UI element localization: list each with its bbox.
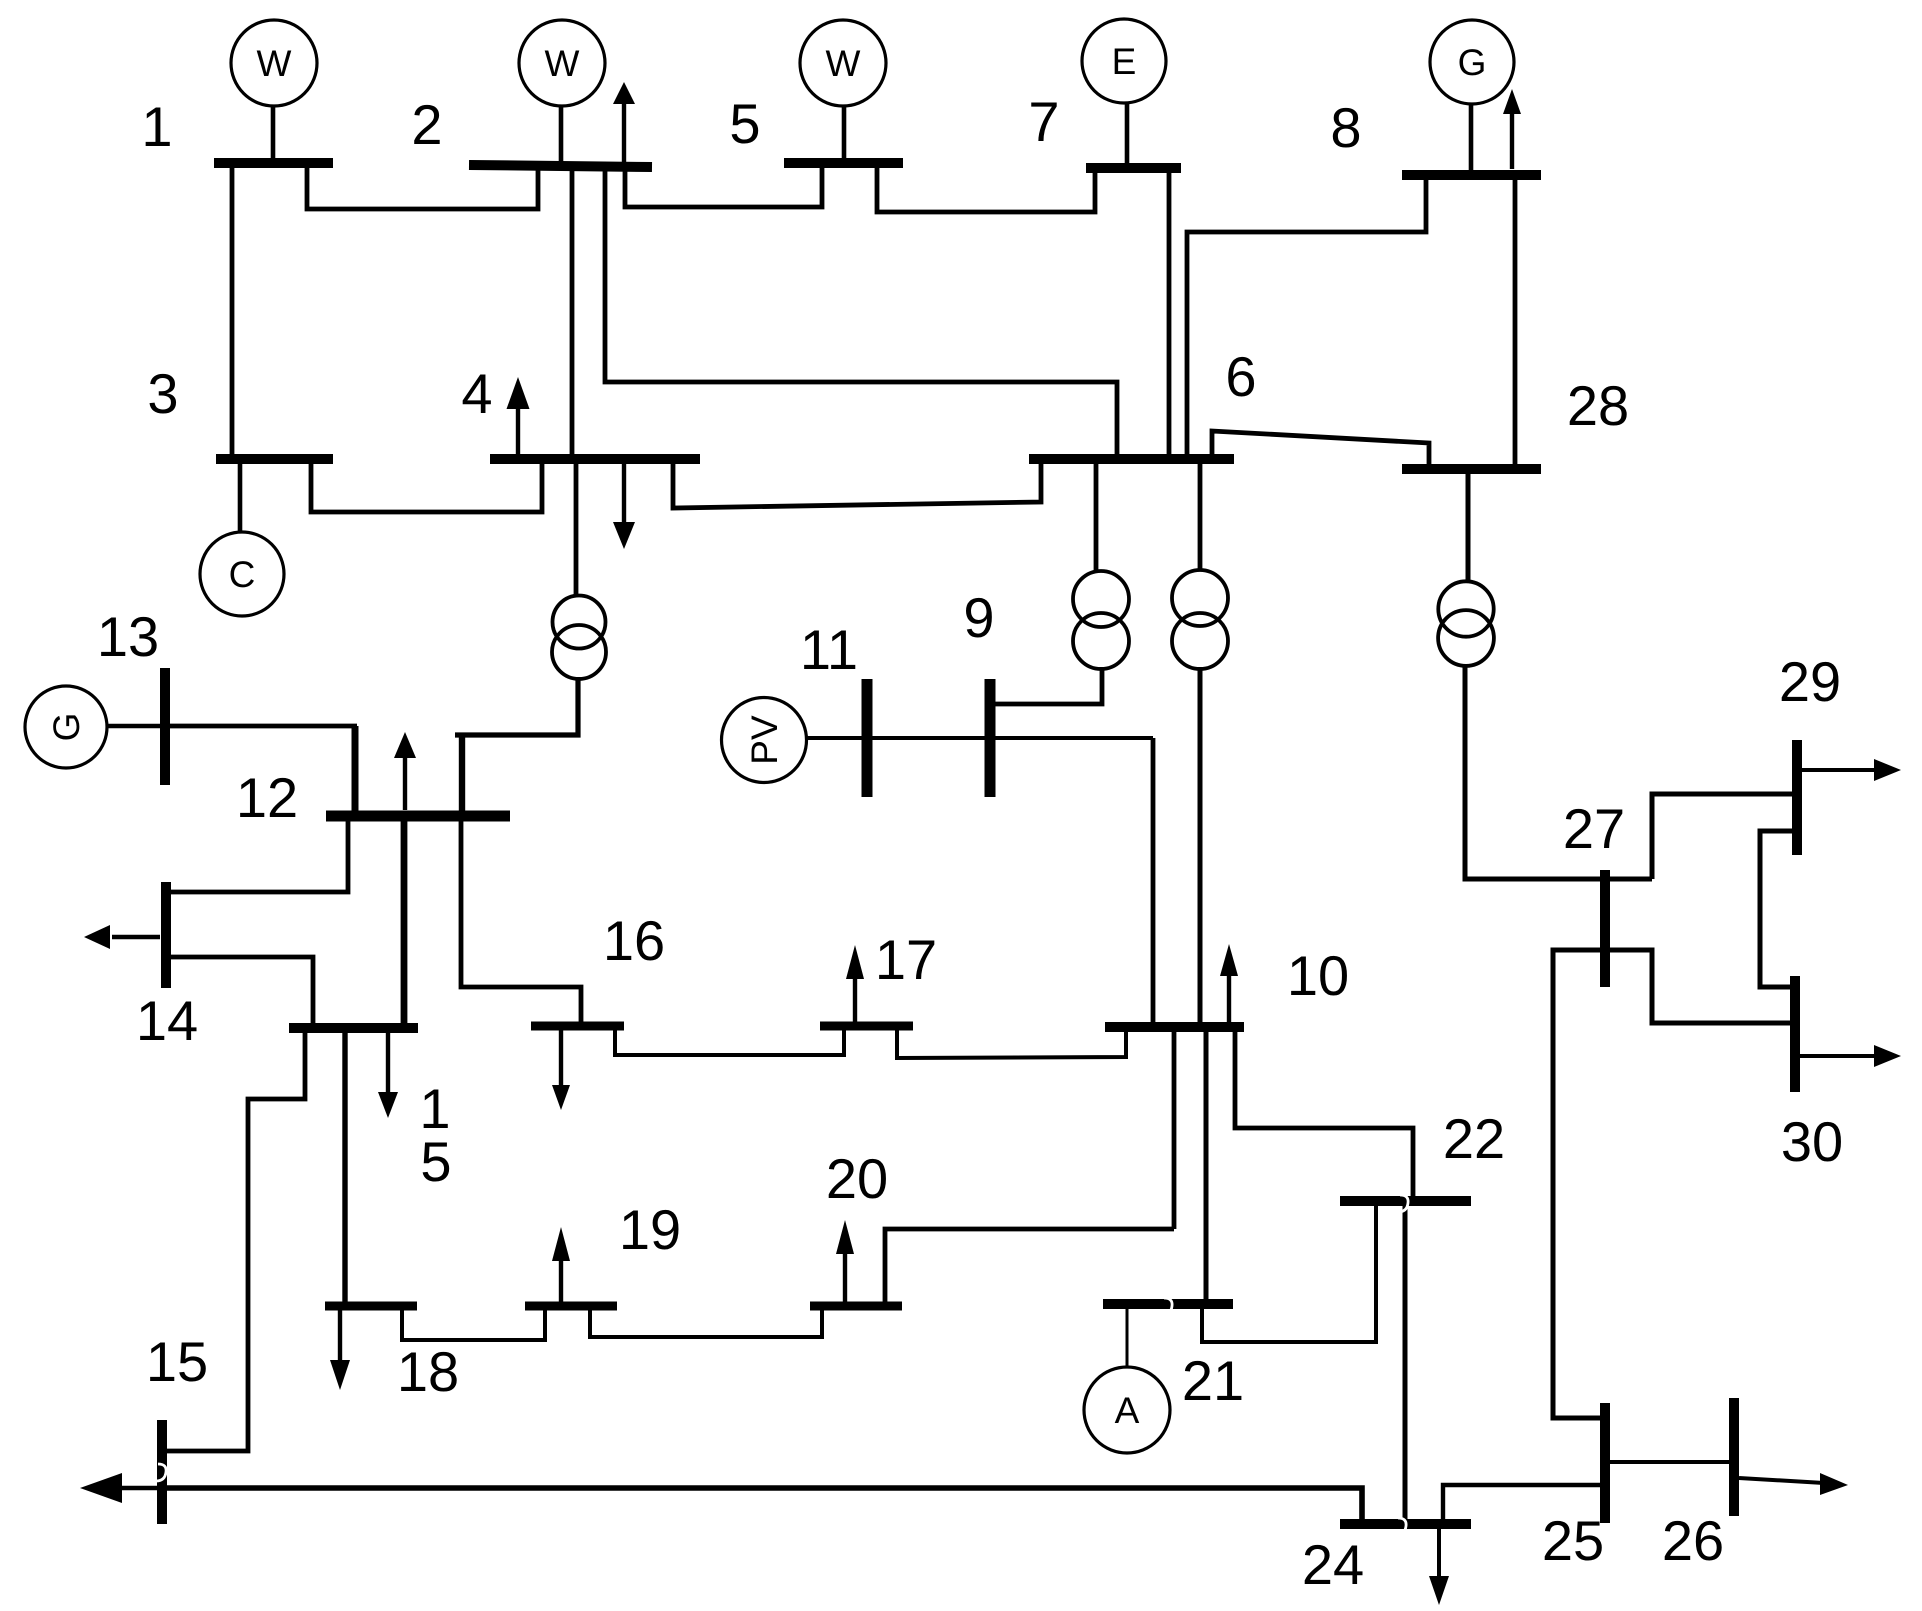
wire line 6-28	[1212, 431, 1429, 465]
bus 2	[469, 165, 652, 167]
wire line 3-4	[311, 463, 542, 512]
bus 20	[810, 1302, 902, 1311]
bus 5	[784, 158, 903, 168]
load arrow left at bus 23	[80, 1473, 158, 1503]
bus 17	[820, 1022, 913, 1031]
svg-text:17: 17	[875, 928, 937, 991]
condenser C at bus 3	[200, 464, 284, 616]
load arrow up at bus 17	[846, 945, 864, 1022]
wire line 4-6	[673, 455, 1041, 508]
bus 11	[862, 679, 873, 797]
svg-text:A: A	[1115, 1390, 1140, 1431]
load arrow down at bus 24	[1429, 1529, 1449, 1605]
wire line 25-27	[1553, 950, 1601, 1418]
svg-text:8: 8	[1330, 96, 1361, 159]
bus 28	[1402, 464, 1541, 474]
wire bus6 to transformer 6-9	[1094, 463, 1099, 572]
load arrow up at bus 10	[1220, 944, 1238, 1022]
white notch mark on bus 24	[1396, 1518, 1406, 1535]
svg-text:5: 5	[420, 1130, 451, 1193]
load arrow left at bus 14	[84, 925, 160, 949]
transformer 6-9	[1073, 571, 1129, 669]
svg-text:5: 5	[729, 92, 760, 155]
transformer 28-27	[1438, 581, 1494, 666]
svg-text:12: 12	[236, 766, 298, 829]
svg-text:25: 25	[1542, 1509, 1604, 1572]
wire line 10-21 (left)	[1172, 1031, 1177, 1229]
bus 4	[490, 454, 700, 464]
wire line 19-20	[590, 1310, 822, 1337]
bus 7	[1086, 163, 1181, 173]
svg-text:13: 13	[97, 605, 159, 668]
load arrow up at bus 2	[613, 82, 635, 165]
wire line 1-3	[230, 168, 235, 454]
svg-text:W: W	[545, 43, 580, 84]
svg-text:21: 21	[1182, 1349, 1244, 1412]
wire bus4 to transformer 4-12	[574, 463, 579, 597]
svg-text:22: 22	[1443, 1107, 1505, 1170]
wire line 27-29	[1652, 794, 1793, 879]
svg-text:16: 16	[603, 909, 665, 972]
bus 12	[326, 811, 510, 822]
wire line 5-7	[877, 168, 1095, 212]
wire line 10-21	[1204, 1031, 1209, 1300]
bus 13	[160, 668, 170, 785]
wire line 7-6	[1167, 172, 1172, 455]
svg-text:28: 28	[1567, 374, 1629, 437]
load arrow down at bus 15	[378, 1032, 398, 1118]
wire transformer 6-10 to bus 10	[1198, 667, 1203, 1023]
wire bus28 to transformer 28-27	[1466, 473, 1471, 583]
svg-text:9: 9	[963, 586, 994, 649]
generator A at bus 21	[1084, 1309, 1170, 1453]
wire transformer 6-9 to bus 9	[993, 667, 1102, 704]
generator PV at bus 11	[722, 698, 807, 783]
bus 16	[531, 1022, 624, 1031]
load arrow down at bus 4	[613, 464, 635, 549]
bus 14	[161, 882, 171, 988]
generator W at bus 5	[800, 20, 886, 160]
wire line 23-24	[166, 1488, 1362, 1520]
svg-text:26: 26	[1662, 1509, 1724, 1572]
generator G at bus 13	[25, 686, 161, 768]
wire line 12-16	[461, 820, 581, 1022]
wire line 2-5	[625, 168, 822, 207]
load arrow right at bus 30	[1800, 1045, 1901, 1067]
bus 3	[216, 454, 333, 464]
bus 26	[1729, 1398, 1739, 1516]
wire line 25-26	[1609, 1460, 1730, 1464]
svg-text:4: 4	[461, 362, 492, 425]
load arrow up at bus 8	[1503, 89, 1521, 169]
wire line 13-12	[163, 724, 357, 729]
svg-text:1: 1	[141, 95, 172, 158]
bus 27	[1600, 870, 1610, 987]
wire PV lead and line 11-9	[806, 736, 1153, 740]
wire line 20-10	[885, 1229, 1174, 1302]
wire transformer 4-12 to bus 12	[455, 677, 578, 735]
bus 25	[1600, 1403, 1610, 1523]
svg-text:14: 14	[136, 989, 198, 1052]
wire line 22-24	[1403, 1205, 1408, 1520]
generator G at bus 8	[1430, 20, 1514, 171]
wire line 2-6	[605, 170, 1117, 455]
wire line 15-18	[342, 1032, 347, 1302]
wire line 10-17	[897, 1030, 1126, 1058]
svg-text:30: 30	[1781, 1110, 1843, 1173]
svg-text:7: 7	[1028, 90, 1059, 153]
white notch mark on bus 23	[156, 1464, 166, 1481]
bus 8	[1402, 170, 1541, 180]
svg-text:G: G	[46, 713, 87, 742]
svg-text:E: E	[1112, 41, 1137, 82]
bus 30	[1790, 976, 1800, 1092]
svg-text:24: 24	[1302, 1533, 1364, 1596]
wire line 12-15	[401, 820, 408, 1024]
bus 15	[289, 1023, 418, 1033]
svg-text:W: W	[826, 43, 861, 84]
generator W at bus 1	[231, 20, 317, 160]
bus 6	[1029, 454, 1234, 464]
svg-text:C: C	[229, 554, 256, 595]
load arrow right at bus 29	[1802, 759, 1901, 781]
svg-text:2: 2	[411, 93, 442, 156]
bus 29	[1792, 740, 1802, 855]
transformer 4-12	[552, 596, 606, 680]
svg-text:29: 29	[1779, 650, 1841, 713]
svg-text:6: 6	[1225, 345, 1256, 408]
svg-text:10: 10	[1287, 944, 1349, 1007]
wire line 12-14	[164, 820, 348, 892]
wire line 21-22	[1202, 1206, 1376, 1342]
bus 19	[525, 1302, 617, 1311]
wire line 1-2	[307, 168, 538, 209]
bus 10	[1105, 1022, 1244, 1032]
load arrow up at bus 12	[394, 732, 416, 810]
svg-text:15: 15	[146, 1330, 208, 1393]
bus 23	[157, 1420, 167, 1524]
svg-text:19: 19	[619, 1198, 681, 1261]
white notch mark on bus 21	[1162, 1298, 1172, 1315]
wire line 15-23	[166, 1032, 305, 1451]
generator W at bus 2	[519, 20, 605, 162]
svg-text:G: G	[1458, 42, 1487, 83]
wire bus6 to transformer 6-10	[1198, 463, 1203, 571]
wire line 16-17	[615, 1030, 844, 1055]
bus 22	[1340, 1196, 1471, 1206]
svg-text:27: 27	[1563, 797, 1625, 860]
wire line 2-4	[570, 170, 575, 454]
white notch mark on bus 22	[1398, 1195, 1408, 1212]
load arrow down at bus 16	[552, 1030, 570, 1110]
svg-text:11: 11	[800, 618, 858, 681]
svg-text:20: 20	[826, 1147, 888, 1210]
bus 1	[214, 158, 333, 168]
wire line 27-30	[1608, 950, 1791, 1023]
bus 9	[985, 679, 996, 797]
bus 24	[1340, 1519, 1471, 1529]
wire transformer 28-27 to bus 27	[1465, 664, 1652, 879]
bus 21	[1103, 1299, 1233, 1309]
load arrow right at bus 26	[1739, 1473, 1848, 1495]
wire line 14-15	[164, 957, 313, 1024]
wire line 9-10	[1151, 738, 1156, 1023]
svg-text:PV: PV	[744, 715, 785, 765]
generator E at bus 7	[1082, 19, 1166, 164]
svg-text:W: W	[257, 43, 292, 84]
wire line 8-28	[1513, 179, 1518, 465]
bus 18	[325, 1302, 417, 1311]
load arrow up at bus 4	[507, 377, 530, 454]
wire line 10-22	[1235, 1031, 1413, 1197]
svg-text:3: 3	[147, 362, 178, 425]
wire line 29-30	[1760, 831, 1793, 987]
wire line 6-8	[1187, 179, 1426, 455]
load arrow down at bus 18	[330, 1310, 350, 1390]
load arrow up at bus 20	[836, 1220, 854, 1302]
wire line 24-25	[1443, 1485, 1601, 1520]
svg-text:18: 18	[397, 1340, 459, 1403]
load arrow up at bus 19	[552, 1227, 570, 1302]
wire line 18-19	[402, 1310, 545, 1340]
transformer 6-10	[1172, 570, 1228, 669]
